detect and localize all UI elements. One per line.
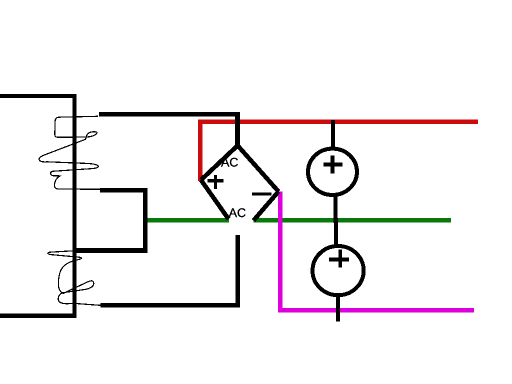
wire: magenta negative rail <box>280 192 474 311</box>
wire: transformer top lead to bridge top <box>99 114 238 148</box>
source V1 (top battery circle) <box>308 149 357 195</box>
label + inside V2 <box>329 250 349 268</box>
wire: transformer bottom lead up to bridge bottom <box>101 235 238 305</box>
label AC (bridge top input) <box>221 158 238 167</box>
label - (bridge negative output) <box>252 192 271 195</box>
bridge rectifier D1: top-left edge <box>201 146 238 181</box>
wire: red rail down to source V1 <box>331 120 335 150</box>
label + (bridge positive output) <box>208 175 224 189</box>
wire: transformer centre-tap U loop <box>74 190 145 250</box>
transformer primary winding (squiggle coil, top) <box>39 116 100 189</box>
source V2 (bottom battery circle) <box>313 246 364 295</box>
wire: green rail down to source V2 <box>334 218 338 247</box>
transformer secondary winding (squiggle coil, bottom) <box>48 250 101 305</box>
wire: green centre-tap rail (left of bridge) <box>144 218 230 223</box>
bridge rectifier D1: top-right edge <box>238 146 279 192</box>
wire: V1 down to green rail <box>334 194 338 223</box>
label AC (bridge bottom input) <box>229 208 246 217</box>
wire: red positive rail <box>200 122 478 181</box>
wire: green centre-tap rail (right of bridge) <box>254 218 452 223</box>
bridge rectifier D1: bottom-right edge <box>254 192 279 221</box>
transformer T1 core box <box>0 96 75 316</box>
bridge rectifier D1: bottom-left edge <box>201 180 229 219</box>
wire: V2 down across magenta rail <box>336 293 340 321</box>
label + inside V1 <box>323 155 342 173</box>
